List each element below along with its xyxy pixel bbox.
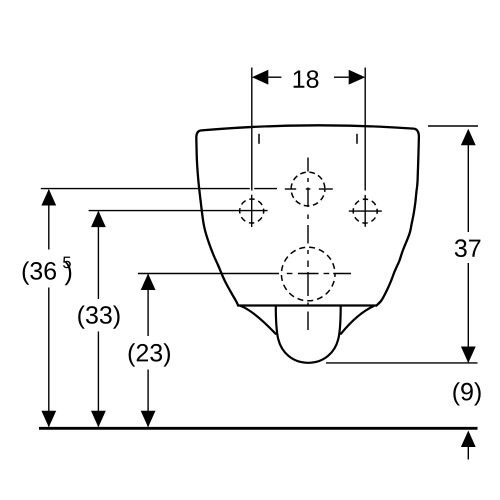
outlet large circle <box>281 247 335 301</box>
dim 33 label <box>78 306 119 329</box>
dim 33 vertical line <box>97 212 99 427</box>
left rim tick <box>258 134 260 144</box>
dim 36.5 top arrow <box>41 189 56 206</box>
dim 23 label <box>129 343 170 366</box>
left mounting hole circle <box>240 199 264 223</box>
floor line <box>39 427 478 430</box>
toilet body outline <box>196 125 419 305</box>
dim 18 left stub <box>268 76 281 78</box>
dim 23 vertical line <box>147 275 149 427</box>
right rim tick <box>356 134 358 144</box>
right hole crosshair vertical <box>364 195 366 227</box>
right mounting hole circle <box>353 199 377 223</box>
outlet circle crosshair horizontal dashes <box>287 273 351 275</box>
dim 37 top extension stub <box>428 125 478 127</box>
dim 23 leader line <box>138 273 279 275</box>
right bowl sweep curve <box>341 306 374 334</box>
center water supply circle <box>291 172 325 206</box>
dim 18 right extension line <box>364 68 366 191</box>
dim 37 label <box>455 239 481 257</box>
vertical center line dash-dot <box>307 158 309 331</box>
dim 23 top arrow <box>141 274 156 291</box>
dim 18 label <box>294 70 319 88</box>
left bowl sweep curve <box>241 306 276 334</box>
outlet bottom extension line <box>326 362 478 364</box>
dim 9 lower arrow below floor <box>461 431 476 448</box>
dim 9 label <box>453 382 480 405</box>
dim 33 top arrow <box>91 211 106 228</box>
dim 33 bottom arrow <box>91 411 106 428</box>
dim 18 left arrow <box>252 70 268 85</box>
flange bottom edge <box>238 304 377 306</box>
dim 37 bottom arrow <box>461 347 476 364</box>
dim 18 right arrow <box>349 70 366 85</box>
outlet <box>276 306 341 363</box>
left hole crosshair vertical <box>251 195 253 227</box>
dim 36.5 label <box>23 261 56 284</box>
dim 36.5 bottom arrow <box>41 411 56 428</box>
dim 37 vertical line <box>467 130 469 362</box>
dim 33 leader line <box>89 210 268 212</box>
dim 23 bottom arrow <box>141 411 156 428</box>
right hole crosshair horizontal <box>349 210 382 212</box>
dim 37 top arrow <box>461 129 476 146</box>
dim 36.5 vertical line <box>48 190 50 427</box>
center circle crosshair horizontal dashes <box>285 188 333 190</box>
dim 36.5 leader line <box>41 188 277 190</box>
dim 9 lower arrow tail <box>467 447 469 460</box>
dim 18 left extension line <box>251 68 253 191</box>
dim 18 right stub <box>334 76 349 78</box>
